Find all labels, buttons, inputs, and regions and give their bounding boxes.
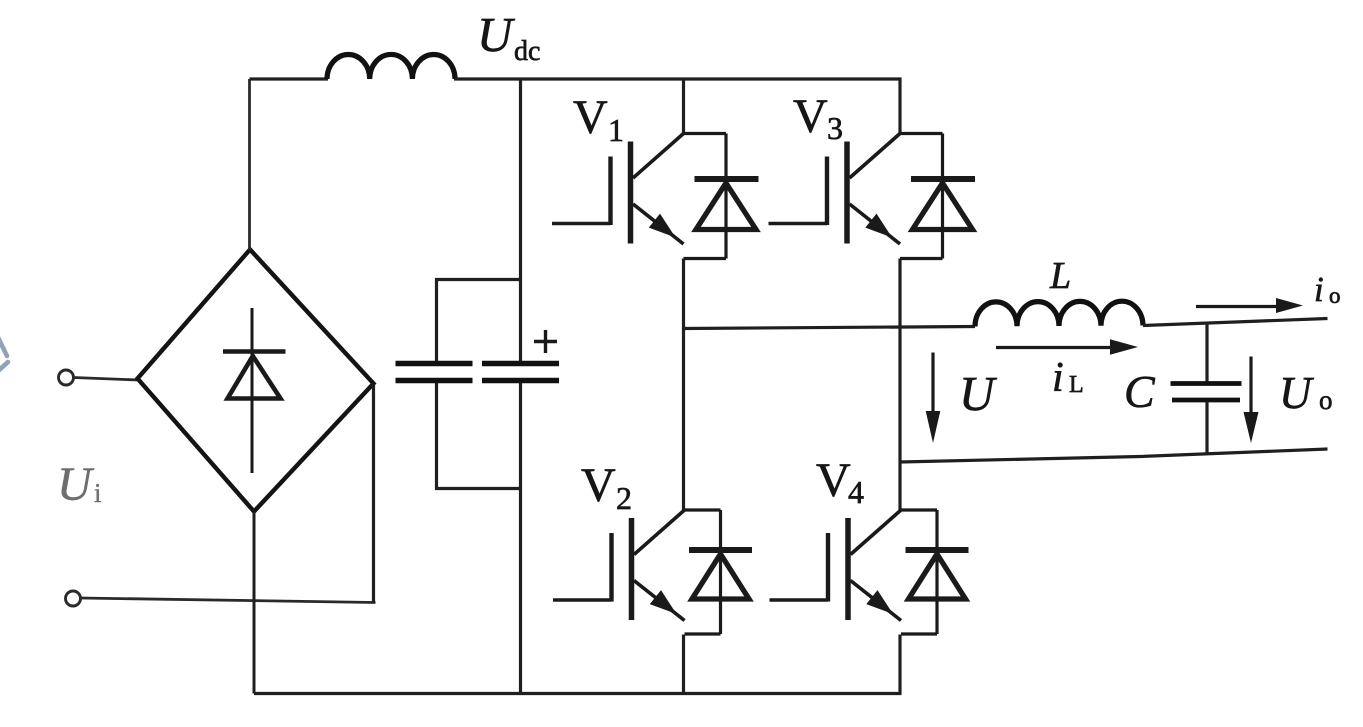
wire left capacitor branch top xyxy=(437,280,521,362)
wire top rail right segment xyxy=(454,77,902,80)
svg-text:4: 4 xyxy=(848,474,864,510)
svg-text:o: o xyxy=(1319,385,1333,415)
diode across V4 xyxy=(901,510,969,634)
capacitor C1 (left dc-link capacitor) xyxy=(396,364,473,381)
svg-text:1: 1 xyxy=(608,112,624,148)
wire inverter right leg top xyxy=(898,78,901,136)
wire rectifier right vertex down xyxy=(372,384,375,603)
svg-text:3: 3 xyxy=(827,110,843,146)
wire output top line left of L xyxy=(684,327,976,329)
transistor V2 xyxy=(553,510,685,621)
diode across V2 xyxy=(685,510,753,634)
svg-text:L: L xyxy=(1069,372,1084,398)
diode across V1 xyxy=(684,134,759,259)
arrow Uo (down) xyxy=(1249,357,1252,415)
input terminal lower xyxy=(66,591,81,606)
svg-text:L: L xyxy=(1049,255,1071,297)
polarity plus sign xyxy=(534,330,557,353)
arrow io (right) xyxy=(1196,305,1280,308)
diode across V3 xyxy=(900,134,975,259)
svg-text:i: i xyxy=(1314,270,1324,309)
wire output bottom line xyxy=(900,449,1328,462)
svg-text:dc: dc xyxy=(514,36,540,67)
diode inside rectifier xyxy=(223,308,286,473)
transistor V3 xyxy=(769,134,901,245)
input terminal upper xyxy=(59,370,74,385)
wire top rail left segment xyxy=(250,77,329,80)
svg-text:2: 2 xyxy=(616,480,632,516)
svg-text:C: C xyxy=(1124,366,1156,417)
wire rectifier bottom vertex down to bottom rail xyxy=(253,512,256,694)
inductor dc-link xyxy=(327,54,455,79)
svg-text:o: o xyxy=(1329,283,1341,308)
wire inverter left leg bottom xyxy=(682,635,685,694)
wire inverter left leg top xyxy=(682,78,685,136)
wire inverter left leg middle xyxy=(682,259,685,512)
wire bottom rail xyxy=(254,692,902,695)
svg-text:V: V xyxy=(581,459,616,512)
wire rectifier top vertex up to top rail xyxy=(248,79,251,250)
wire left capacitor branch bottom xyxy=(437,383,521,489)
arrow iL (right) xyxy=(996,346,1114,349)
rectifier bridge (diamond) xyxy=(138,250,374,512)
arrow U (down) xyxy=(931,353,934,419)
capacitor C vertical bottom xyxy=(1205,402,1208,454)
svg-text:i: i xyxy=(94,478,102,508)
transistor V4 xyxy=(770,510,902,621)
svg-text:i: i xyxy=(1052,355,1064,401)
svg-text:U: U xyxy=(57,458,95,511)
svg-text:U: U xyxy=(959,366,998,421)
wire inverter right leg middle xyxy=(898,259,901,512)
wire dc-link capacitor rail upper xyxy=(519,79,522,362)
capacitor C plates xyxy=(1171,384,1242,401)
stray pencil mark at left edge xyxy=(0,327,8,382)
svg-text:U: U xyxy=(1279,368,1314,418)
svg-text:V: V xyxy=(573,91,608,144)
wire output top line right of L xyxy=(1143,319,1328,326)
wire dc-link capacitor rail lower xyxy=(519,383,522,694)
svg-text:V: V xyxy=(816,454,851,507)
svg-text:U: U xyxy=(477,7,516,62)
wire inverter right leg bottom xyxy=(898,635,901,694)
capacitor C vertical top xyxy=(1205,323,1208,381)
inductor L xyxy=(975,301,1143,326)
transistor V1 xyxy=(552,134,684,245)
svg-text:V: V xyxy=(793,90,828,143)
capacitor C2 (right dc-link capacitor) xyxy=(482,364,559,381)
wire lower terminal to node under rectifier right vertex xyxy=(81,598,376,603)
wire upper terminal to rectifier left vertex xyxy=(74,378,139,381)
